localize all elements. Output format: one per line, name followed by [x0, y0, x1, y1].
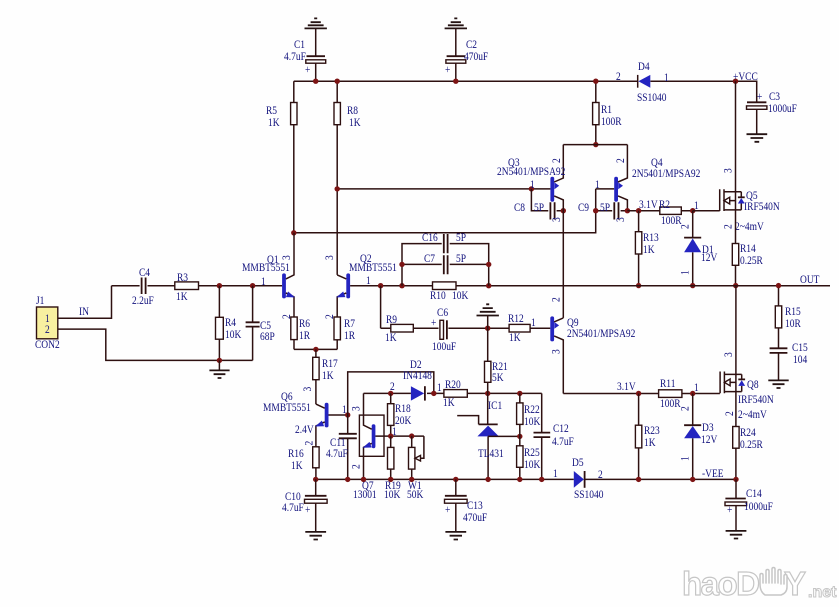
svg-text:-VEE: -VEE: [702, 467, 724, 480]
svg-text:R2: R2: [659, 198, 670, 211]
resistor R16 1K: [288, 447, 319, 480]
capacitor C16 5P: [422, 231, 466, 253]
svg-text:3: 3: [722, 352, 735, 357]
node: C1 to rail junction: [313, 79, 318, 84]
ground below C10: [305, 532, 326, 540]
diode D2 IN4148: [390, 358, 442, 401]
node: Q3 base line at R8 column: [335, 186, 340, 191]
resistor R24 0.25R: [733, 392, 764, 480]
wire Q8 drain to OUT rail: [735, 286, 737, 375]
MOSFET Q8 IRF540N: [720, 352, 774, 421]
capacitor C8 5P: [514, 189, 563, 220]
svg-text:1K: 1K: [443, 396, 455, 409]
svg-text:1: 1: [553, 467, 558, 480]
ground below C15: [768, 380, 788, 388]
svg-text:2: 2: [303, 441, 316, 446]
svg-text:1K: 1K: [509, 331, 521, 344]
node: R9 tap junction: [378, 283, 383, 288]
node: Q4 collector junction: [625, 208, 630, 213]
svg-text:3: 3: [323, 255, 336, 260]
resistor R21 5K: [485, 328, 508, 393]
svg-text:+: +: [431, 316, 436, 329]
svg-text:SS1040: SS1040: [574, 488, 603, 501]
capacitor C6 100uF: [431, 306, 456, 353]
resistor R22 10K: [517, 393, 541, 436]
wire emitter join: [294, 348, 337, 350]
svg-text:R11: R11: [660, 377, 675, 390]
node: C13 on bottom rail: [453, 477, 458, 482]
svg-text:+: +: [305, 63, 310, 76]
capacitor C12 4.7uF: [534, 393, 574, 479]
svg-text:Q8: Q8: [747, 378, 759, 391]
svg-text:2N5401/MPSA92: 2N5401/MPSA92: [632, 167, 700, 180]
diode D5 SS1040: [553, 456, 603, 501]
wire Q4 base: [596, 188, 615, 190]
node: R13 bottom on OUT rail: [636, 283, 641, 288]
resistor R3 1K: [175, 271, 199, 303]
svg-text:MMBT5551: MMBT5551: [242, 261, 290, 274]
node: Q7 base / R19 top: [388, 433, 393, 438]
node: Q8 gate junction: [690, 391, 695, 396]
node: R15 top on OUT rail: [776, 283, 781, 288]
svg-text:1R: 1R: [344, 329, 356, 342]
svg-text:2: 2: [679, 224, 692, 229]
svg-text:5P: 5P: [534, 201, 544, 214]
svg-text:2: 2: [614, 158, 627, 163]
resistor R14 0.25R: [732, 210, 763, 286]
svg-text:CON2: CON2: [35, 338, 60, 351]
svg-text:IN: IN: [79, 305, 89, 318]
node: C6 / ground / R21 junction: [485, 326, 490, 331]
wire bottom negative rail: [316, 478, 736, 480]
resistor R25 10K: [517, 436, 541, 479]
svg-text:470uF: 470uF: [463, 511, 487, 524]
svg-text:1K: 1K: [322, 369, 334, 382]
svg-text:1: 1: [595, 178, 600, 191]
resistor R7 1R: [334, 317, 356, 349]
node: C12 on bottom rail: [539, 477, 544, 482]
svg-text:+VCC: +VCC: [733, 70, 758, 83]
node: C16/C7 left column on rail: [399, 283, 404, 288]
svg-text:470uF: 470uF: [464, 50, 488, 63]
transistor Q3 2N5401/MPSA92: [497, 145, 565, 222]
capacitor C7 5P: [424, 252, 466, 274]
node: emitter join to R17: [313, 347, 318, 352]
svg-text:TL431: TL431: [478, 447, 504, 460]
node: Q1 collector junction: [291, 230, 296, 235]
node: R14 bottom on OUT rail: [733, 283, 738, 288]
node: C16/C7 right column on rail: [486, 283, 491, 288]
ground below C3: [747, 134, 768, 142]
node: R13 top junction: [636, 208, 641, 213]
node: R21 bottom junction: [485, 391, 490, 396]
node: R25 on bottom rail: [517, 477, 522, 482]
svg-text:104: 104: [793, 353, 808, 366]
svg-text:C16: C16: [422, 231, 438, 244]
svg-text:OUT: OUT: [800, 273, 820, 286]
svg-text:2~4mV: 2~4mV: [735, 220, 764, 233]
node: Q5 gate junction: [690, 208, 695, 213]
wire Q3 collector down to Q9 emitter: [562, 211, 564, 318]
svg-text:2N5401/MPSA92: 2N5401/MPSA92: [497, 165, 565, 178]
ground (inverted) above C6 node: [477, 304, 499, 328]
svg-text:R3: R3: [177, 271, 188, 284]
resistor R2 100R: [639, 198, 699, 227]
svg-text:C8: C8: [514, 201, 525, 214]
connector J1 CON2: [35, 294, 60, 351]
svg-text:R10: R10: [430, 289, 446, 302]
svg-text:50K: 50K: [407, 488, 423, 501]
node: C2 to rail junction: [453, 79, 458, 84]
svg-text:2: 2: [550, 158, 563, 163]
svg-text:D4: D4: [638, 60, 650, 73]
svg-text:2: 2: [616, 70, 621, 83]
capacitor C2 470uF: [445, 38, 488, 81]
resistor R23 1K: [635, 394, 659, 480]
svg-text:10K: 10K: [524, 458, 540, 471]
svg-text:+: +: [727, 503, 732, 516]
svg-text:1K: 1K: [291, 459, 303, 472]
capacitor C13 470uF: [445, 479, 488, 532]
svg-text:10R: 10R: [785, 317, 801, 330]
capacitor C1 4.7uF: [284, 38, 326, 81]
wire Q3/Q4 emitter rail: [563, 144, 627, 146]
svg-text:5P: 5P: [456, 252, 466, 265]
watermark haoDIY.net: [680, 560, 839, 607]
svg-text:C4: C4: [139, 266, 151, 279]
svg-text:MMBT5551: MMBT5551: [349, 261, 397, 274]
node: R4 top junction: [217, 283, 222, 288]
node: C8 tap on base line: [529, 186, 534, 191]
resistor R6 1R: [291, 317, 311, 349]
svg-text:2: 2: [45, 323, 50, 336]
resistor R13 1K: [635, 211, 658, 286]
wire D2/R20 row: [364, 392, 542, 394]
resistor R19 10K: [384, 436, 401, 501]
svg-text:0.25R: 0.25R: [740, 438, 764, 451]
wire line Q1 collector to Q4 base: [294, 189, 596, 233]
svg-text:D5: D5: [572, 456, 584, 469]
svg-text:100R: 100R: [601, 115, 622, 128]
svg-text:1: 1: [679, 456, 692, 461]
node: C7 left tap: [399, 262, 404, 267]
svg-text:1: 1: [694, 381, 699, 394]
svg-text:C12: C12: [553, 422, 569, 435]
svg-text:haoD: haoD: [682, 565, 759, 602]
wire J1 pin2 to ground rail: [58, 329, 253, 360]
svg-text:3: 3: [550, 349, 563, 354]
svg-text:1K: 1K: [349, 116, 361, 129]
resistor R17 1K: [313, 349, 339, 404]
node: Q7 emitter on bottom rail: [361, 477, 366, 482]
svg-text:1000uF: 1000uF: [744, 500, 773, 513]
svg-text:2: 2: [550, 297, 563, 302]
svg-text:68P: 68P: [260, 330, 275, 343]
svg-text:R9: R9: [386, 313, 397, 326]
svg-text:3: 3: [280, 255, 293, 260]
resistor R10 10K: [430, 282, 468, 302]
svg-text:2N5401/MPSA92: 2N5401/MPSA92: [567, 327, 635, 340]
svg-text:1K: 1K: [385, 331, 397, 344]
svg-text:+: +: [757, 90, 762, 103]
resistor R5 1K: [266, 81, 297, 233]
capacitor C4 2.2uF: [132, 266, 154, 307]
zener D3 12V: [679, 394, 718, 480]
wire J1 pin1 to C4: [58, 286, 112, 319]
ground (inverted) above C2: [445, 18, 467, 56]
svg-text:1: 1: [530, 178, 535, 191]
node: R22 top junction: [517, 391, 522, 396]
node: W1 on bottom rail: [409, 477, 414, 482]
node: C5 top junction: [250, 283, 255, 288]
svg-text:2~4mV: 2~4mV: [738, 408, 767, 421]
svg-text:3: 3: [614, 217, 627, 222]
node: R1 bottom junction: [593, 142, 598, 147]
svg-text:0.25R: 0.25R: [740, 254, 764, 267]
zener D1 12V: [679, 211, 718, 286]
node: R1 top junction: [593, 79, 598, 84]
svg-text:12V: 12V: [701, 433, 717, 446]
wire +VCC top rail: [294, 81, 757, 102]
transistor Q9 2N5401/MPSA92: [550, 297, 636, 393]
svg-text:SS1040: SS1040: [637, 91, 666, 104]
wire Q5 drain to +VCC: [735, 81, 737, 192]
wire Q5 gate lead: [693, 210, 720, 212]
svg-text:10K: 10K: [524, 415, 540, 428]
svg-text:1: 1: [437, 381, 442, 394]
node: D2 cathode / R20 left: [431, 391, 436, 396]
svg-text:1K: 1K: [176, 290, 188, 303]
svg-text:13001: 13001: [353, 488, 377, 501]
diode D4 SS1040: [616, 60, 669, 104]
MOSFET Q5 IRF540N: [720, 168, 780, 233]
svg-text:R12: R12: [508, 312, 524, 325]
node: R19 on bottom rail: [388, 477, 393, 482]
resistor R11 100R: [617, 377, 699, 410]
svg-text:1: 1: [261, 275, 266, 288]
ground (inverted) above C1: [305, 18, 327, 56]
wire R9/C6/R12 bias row: [381, 286, 551, 329]
node: R23 top junction: [636, 391, 641, 396]
svg-text:3: 3: [550, 217, 563, 222]
svg-text:IC1: IC1: [488, 399, 502, 412]
svg-text:12V: 12V: [701, 251, 717, 264]
svg-text:3.1V: 3.1V: [639, 198, 658, 211]
transistor Q4 2N5401/MPSA92: [595, 145, 700, 222]
node: IC1 anode on bottom rail: [485, 477, 490, 482]
svg-text:3: 3: [301, 387, 314, 392]
svg-text:2: 2: [679, 406, 692, 411]
svg-text:100uF: 100uF: [432, 340, 456, 353]
svg-text:+: +: [445, 63, 450, 76]
resistor R1 100R: [593, 81, 623, 144]
svg-text:3.1V: 3.1V: [617, 380, 636, 393]
svg-text:1R: 1R: [299, 329, 311, 342]
svg-text:1000uF: 1000uF: [768, 102, 797, 115]
transistor Q2 MMBT5551: [323, 252, 397, 319]
capacitor C15 104: [770, 341, 808, 380]
svg-text:10K: 10K: [225, 328, 241, 341]
svg-text:5P: 5P: [456, 231, 466, 244]
wire Q6 base to D2 cathode: [348, 372, 434, 415]
resistor R15 10R: [775, 286, 801, 349]
node: +VCC junction: [733, 79, 738, 84]
wire C16/C7 bridge columns: [402, 244, 489, 286]
svg-text:10K: 10K: [384, 488, 400, 501]
ground below C14: [726, 531, 747, 539]
resistor R12 1K: [508, 312, 536, 344]
transistor Q6 MMBT5551: [263, 387, 348, 447]
node: R22/R25 divider junction: [517, 434, 522, 439]
svg-text:5K: 5K: [492, 371, 504, 384]
svg-text:C7: C7: [424, 252, 436, 265]
svg-text:1K: 1K: [643, 243, 655, 256]
svg-text:2: 2: [723, 411, 736, 416]
svg-text:.net: .net: [808, 584, 837, 601]
wire R2 row (Q4 collector to Q5 gate): [627, 210, 692, 212]
svg-text:20K: 20K: [395, 414, 411, 427]
node: R16/C10 on bottom rail: [313, 477, 318, 482]
wire OUT rail: [350, 285, 830, 287]
svg-text:2: 2: [598, 468, 603, 481]
resistor R20 1K: [443, 378, 467, 409]
svg-text:C9: C9: [578, 201, 589, 214]
svg-text:IN4148: IN4148: [403, 369, 432, 382]
node: Q6 base junction: [345, 412, 350, 417]
resistor R18 20K: [388, 393, 412, 436]
node: R8 top junction: [335, 79, 340, 84]
capacitor C10 4.7uF: [282, 479, 327, 532]
svg-text:2: 2: [350, 464, 363, 469]
svg-text:1: 1: [531, 316, 536, 329]
svg-text:5P: 5P: [600, 201, 610, 214]
svg-text:4.7uF: 4.7uF: [326, 447, 348, 460]
svg-text:MMBT5551: MMBT5551: [263, 401, 311, 414]
svg-text:2: 2: [722, 224, 735, 229]
svg-text:1: 1: [366, 274, 371, 287]
svg-text:+: +: [445, 503, 450, 516]
svg-text:C6: C6: [437, 306, 449, 319]
node: W1 top junction: [409, 433, 414, 438]
transistor Q1 MMBT5551: [242, 233, 295, 319]
svg-text:4.7uF: 4.7uF: [552, 435, 574, 448]
node: Q3 collector / C8 junction: [561, 208, 566, 213]
wire Q3 base line: [337, 188, 550, 190]
node: D2 anode / R18 top: [388, 391, 393, 396]
svg-text:2.4V: 2.4V: [295, 423, 314, 436]
transistor Q7 13001: [350, 393, 424, 501]
svg-text:4.7uF: 4.7uF: [282, 501, 304, 514]
svg-text:3: 3: [350, 406, 363, 411]
ground below C13: [445, 532, 466, 540]
svg-text:IRF540N: IRF540N: [738, 393, 774, 406]
resistor R4 10K: [216, 286, 242, 361]
node: C11 on bottom rail: [345, 477, 350, 482]
wire 3.1V rail (Q9 collector to Q8 gate): [563, 393, 720, 395]
wire input base rail (C4/R3 to Q1): [112, 285, 283, 287]
node: ground rail junction: [217, 358, 222, 363]
capacitor C11 4.7uF: [326, 415, 357, 479]
node: R24/C14 on bottom rail: [733, 477, 738, 482]
svg-text:4.7uF: 4.7uF: [284, 50, 306, 63]
svg-text:C14: C14: [746, 487, 762, 500]
node: D3 on bottom rail: [690, 477, 695, 482]
svg-text:10K: 10K: [452, 289, 468, 302]
node: Q4 base / C9 junction: [593, 208, 598, 213]
capacitor C9 5P: [578, 201, 627, 219]
svg-text:+: +: [305, 503, 310, 516]
svg-text:1K: 1K: [644, 436, 656, 449]
svg-text:1: 1: [679, 270, 692, 275]
resistor R8 1K: [334, 81, 361, 275]
svg-text:3: 3: [722, 168, 735, 173]
svg-text:1: 1: [664, 71, 669, 84]
svg-text:1K: 1K: [268, 116, 280, 129]
ground below R4: [209, 360, 229, 378]
resistor R9 1K: [385, 313, 413, 344]
svg-text:2.2uF: 2.2uF: [132, 294, 154, 307]
capacitor C5 68P: [246, 286, 275, 361]
shunt regulator IC1 TL431: [457, 393, 520, 479]
potentiometer W1 50K: [407, 436, 424, 501]
node: R23 on bottom rail: [636, 477, 641, 482]
capacitor C14 1000uF: [725, 479, 773, 531]
svg-text:IRF540N: IRF540N: [744, 200, 780, 213]
capacitor C3 1000uF: [747, 90, 797, 134]
node: C7 right tap: [486, 262, 491, 267]
svg-text:J1: J1: [36, 294, 44, 307]
svg-text:R20: R20: [445, 378, 461, 391]
node: D1 bottom on OUT rail: [690, 283, 695, 288]
